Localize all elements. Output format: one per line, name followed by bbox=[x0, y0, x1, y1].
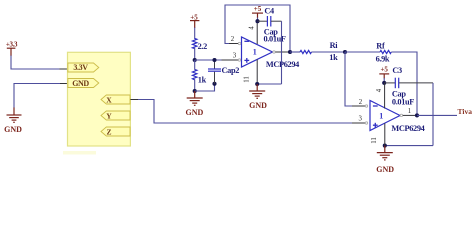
junction 1k/Cap2 ground bbox=[193, 89, 197, 93]
power +5 (C4) bbox=[252, 5, 263, 21]
svg-text:GND: GND bbox=[4, 125, 22, 134]
capacitor C4 bbox=[258, 6, 286, 43]
ground (1k / Cap2) bbox=[186, 91, 204, 117]
svg-text:GND: GND bbox=[186, 108, 204, 117]
svg-text:Tiva: Tiva bbox=[458, 107, 473, 116]
svg-text:0.01uF: 0.01uF bbox=[264, 34, 286, 43]
wire X to op-amp U2 pin 3 bbox=[138, 100, 352, 124]
feedback wire U1 output to pin 2 bbox=[225, 5, 290, 52]
svg-text:Cap2: Cap2 bbox=[222, 66, 240, 75]
wire U2 output to Tiva bbox=[417, 114, 457, 116]
svg-text:MCP6294: MCP6294 bbox=[391, 124, 424, 133]
svg-text:X: X bbox=[106, 95, 112, 104]
sheet symbol accelerometer block bbox=[63, 52, 130, 154]
wire ground rail to Cap2 bbox=[195, 84, 215, 91]
svg-text:2.2: 2.2 bbox=[198, 42, 208, 51]
svg-text:4: 4 bbox=[376, 88, 383, 92]
junction U1 output / feedback bbox=[288, 50, 292, 54]
wire node to 1k bbox=[194, 60, 196, 70]
resistor Rf 6.9k bbox=[376, 42, 392, 64]
svg-text:Y: Y bbox=[106, 111, 112, 120]
pin stub GND bbox=[60, 83, 68, 85]
svg-text:2: 2 bbox=[359, 99, 363, 106]
svg-text:GND: GND bbox=[249, 101, 267, 110]
ground rail U1 bbox=[257, 83, 281, 85]
junction pin11 ground bbox=[255, 82, 259, 86]
sheet entry Y bbox=[101, 111, 130, 120]
resistor 2.2 bbox=[193, 39, 208, 52]
pin 11 ground stub U1 bbox=[244, 60, 258, 85]
wire C4 to ground rail bbox=[281, 21, 283, 84]
wire 1k to ground rail bbox=[194, 80, 196, 92]
sheet entry X bbox=[101, 95, 130, 104]
feedback wire Rf to U2 output bbox=[391, 52, 417, 115]
capacitor C3 bbox=[384, 66, 433, 107]
svg-text:Z: Z bbox=[106, 127, 111, 136]
svg-text:+3.3: +3.3 bbox=[6, 41, 18, 49]
junction Cap2 bottom bbox=[212, 82, 216, 86]
capacitor Cap2 bbox=[208, 60, 239, 84]
svg-text:1k: 1k bbox=[329, 53, 338, 62]
pin stub X bbox=[130, 99, 138, 101]
wire node to Rf bbox=[345, 51, 380, 53]
svg-text:GND: GND bbox=[72, 79, 89, 88]
pin 3 stub U2 bbox=[352, 116, 368, 125]
pin 11 ground stub U2 bbox=[371, 123, 385, 145]
wire Ri to node bbox=[312, 51, 346, 53]
svg-text:3: 3 bbox=[233, 53, 237, 60]
pin 1 output stub U2 bbox=[400, 108, 417, 117]
wire node down to U2 pin 2 bbox=[345, 52, 352, 106]
wire +5 to R 2.2 bbox=[194, 28, 196, 40]
junction pin11 ground U2 bbox=[383, 144, 387, 148]
svg-text:+5: +5 bbox=[380, 66, 388, 74]
op-amp U2 MCP6294 bbox=[370, 101, 425, 133]
pin 4 power stub U1 bbox=[248, 21, 257, 44]
sheet entry 3.3V bbox=[68, 63, 99, 72]
pin 3 stub U1 bbox=[222, 53, 241, 62]
resistor 1k bbox=[193, 70, 207, 85]
svg-text:C4: C4 bbox=[264, 6, 274, 15]
power +5 (stage 1) bbox=[190, 13, 199, 28]
svg-text:11: 11 bbox=[371, 137, 378, 144]
sheet entry GND bbox=[68, 79, 99, 88]
wire U1 output to Ri bbox=[290, 51, 300, 53]
pin 2 stub U2 bbox=[352, 99, 368, 107]
svg-text:Ri: Ri bbox=[330, 41, 339, 50]
svg-text:1: 1 bbox=[253, 48, 257, 57]
junction U2 output / feedback bbox=[415, 113, 419, 117]
svg-text:Rf: Rf bbox=[376, 42, 385, 51]
wire +3.3 to 3.3V pin bbox=[11, 56, 60, 70]
ground rail U2 bbox=[385, 145, 433, 147]
junction Cap2 top bbox=[212, 58, 216, 62]
wire GND pin to ground bbox=[14, 84, 68, 109]
svg-text:MCP6294: MCP6294 bbox=[266, 60, 299, 69]
ground U1 bbox=[249, 84, 267, 110]
ground U2 bbox=[376, 146, 394, 174]
svg-text:6.9k: 6.9k bbox=[376, 55, 390, 64]
svg-text:4: 4 bbox=[248, 26, 255, 30]
node junction bbox=[193, 58, 197, 62]
junction +5 / C4 / pin4 bbox=[255, 19, 259, 23]
svg-text:1: 1 bbox=[408, 108, 411, 115]
svg-text:3.3V: 3.3V bbox=[73, 63, 88, 72]
junction Ri/Rf/pin2 node bbox=[343, 50, 347, 54]
pin 1 output stub U1 bbox=[273, 51, 290, 53]
power +3.3 bbox=[6, 41, 18, 57]
power +5 (C3) bbox=[379, 66, 389, 83]
svg-text:C3: C3 bbox=[392, 66, 402, 75]
ground GND left bbox=[4, 108, 22, 135]
pin 2 stub U1 bbox=[225, 36, 241, 45]
wire node to op-amp U1 pin 3 bbox=[195, 59, 222, 61]
wire R2.2 to node bbox=[194, 48, 196, 60]
pin stub 3.3V bbox=[60, 68, 68, 70]
svg-text:1: 1 bbox=[379, 112, 383, 121]
junction +5 / C3 / pin4 U2 bbox=[382, 81, 386, 85]
sheet entry Z bbox=[101, 127, 130, 136]
svg-text:3: 3 bbox=[358, 116, 362, 123]
resistor Ri 1k bbox=[300, 41, 338, 62]
svg-text:1k: 1k bbox=[198, 75, 207, 84]
svg-text:GND: GND bbox=[376, 165, 394, 174]
svg-text:0.01uF: 0.01uF bbox=[392, 97, 414, 106]
wire C3 to ground rail U2 bbox=[432, 83, 434, 146]
pin 4 power stub U2 bbox=[376, 83, 385, 109]
svg-text:11: 11 bbox=[244, 76, 251, 83]
op-amp U1 MCP6294 bbox=[242, 37, 300, 69]
svg-text:2: 2 bbox=[231, 36, 235, 43]
svg-text:+5: +5 bbox=[254, 5, 262, 13]
